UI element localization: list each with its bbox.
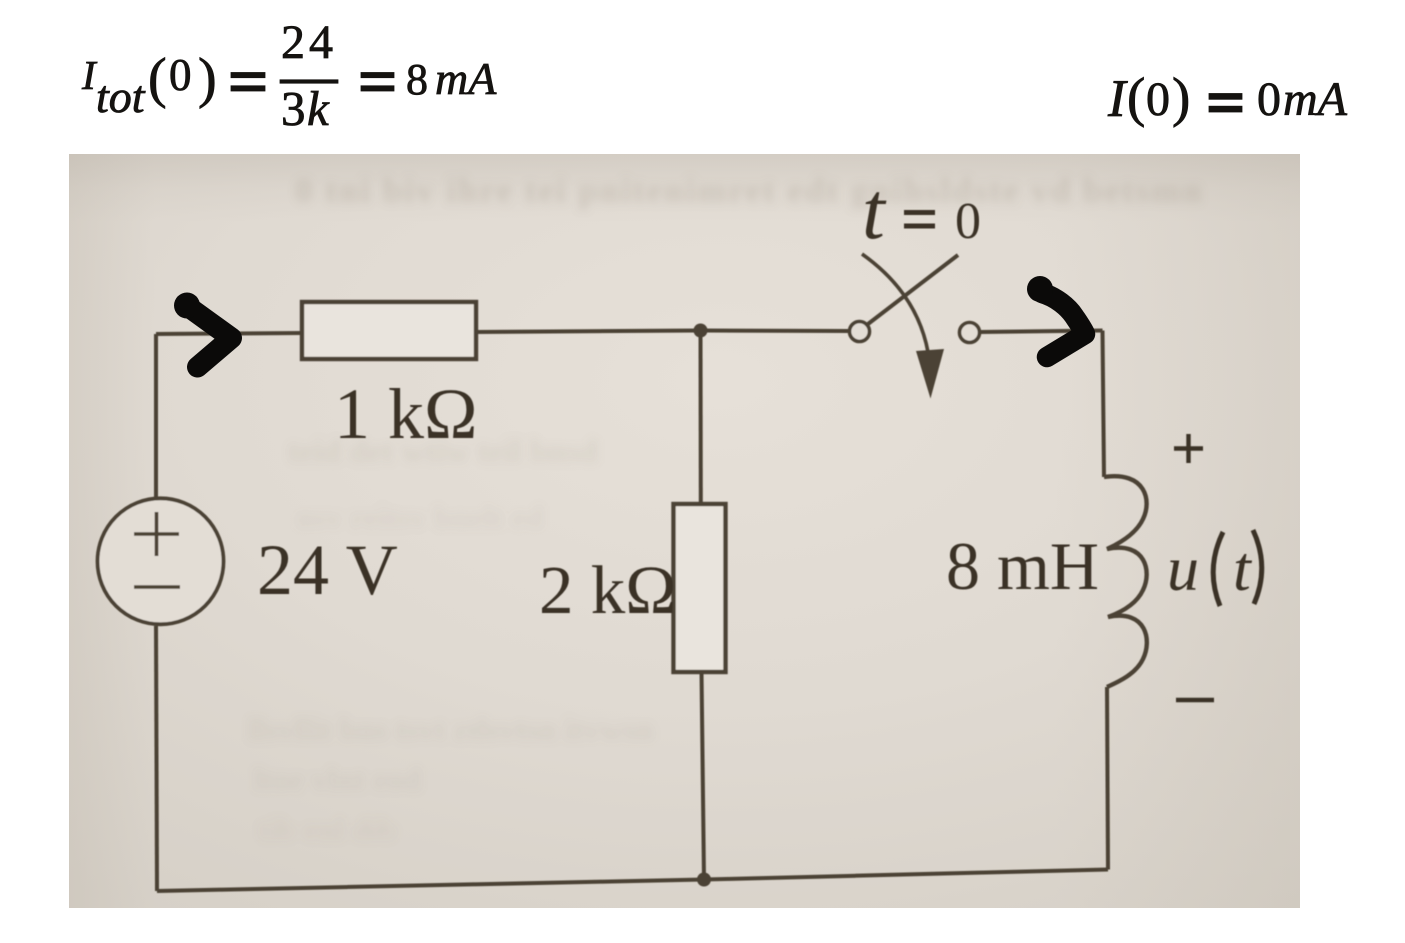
current arrow I (black marker, right of switch): [1042, 293, 1085, 357]
resistor R2 2kΩ (vertical): [674, 504, 726, 672]
voltage source + mark: [134, 512, 179, 556]
svg-text:ltoe vlnt eod: ltoe vlnt eod: [254, 761, 421, 797]
svg-text:0: 0: [1257, 73, 1281, 126]
label "t = 0": [862, 165, 981, 256]
formula Itot(0) = 24/3k = 8mA: [81, 16, 497, 136]
svg-text:u: u: [1167, 533, 1199, 604]
svg-text:3: 3: [281, 81, 306, 136]
inductor L1 8mH (three bumps): [1104, 476, 1147, 687]
svg-text:t: t: [1233, 533, 1253, 604]
svg-text:mA: mA: [435, 53, 497, 104]
switch S1 left terminal circle: [850, 322, 870, 342]
switch S1 closing motion arc: [862, 254, 928, 352]
switch S1 right terminal circle: [960, 323, 980, 343]
wire inductor to bottom-right corner: [1107, 687, 1108, 870]
svg-text:0: 0: [1146, 73, 1170, 126]
label "u(t)": [1167, 530, 1262, 606]
svg-text:mA: mA: [1283, 73, 1348, 126]
wire R2 down to node B: [702, 672, 705, 880]
current arrow Itot (black marker, left): [187, 306, 232, 368]
wire node A to switch left terminal: [701, 329, 849, 334]
voltage source − mark: [134, 585, 180, 589]
wire top-left horizontal (source to R1): [156, 333, 302, 334]
svg-text:tot: tot: [96, 71, 146, 122]
svg-text:(: (: [148, 48, 167, 110]
svg-text:0: 0: [955, 193, 981, 250]
svg-text:I: I: [1107, 70, 1128, 128]
svg-text:2 kΩ: 2 kΩ: [539, 552, 677, 628]
svg-text:0: 0: [169, 50, 192, 100]
wire R1 to node A: [476, 331, 700, 333]
svg-text:k: k: [307, 81, 330, 136]
wire bottom-left corner up to source: [156, 626, 157, 891]
svg-text:): ): [198, 48, 217, 110]
svg-text:24: 24: [281, 16, 337, 69]
voltage source V1 circle: [98, 498, 224, 624]
switch S1 motion arrowhead: [916, 349, 944, 399]
polarity − (bottom of inductor voltage): [1176, 698, 1214, 702]
polarity + (top of inductor voltage): [1174, 434, 1203, 463]
svg-text:8: 8: [406, 55, 428, 104]
switch S1 blade (open): [868, 255, 958, 324]
resistor R1 1kΩ (horizontal): [302, 302, 476, 359]
svg-text:24 V: 24 V: [257, 530, 398, 610]
node A junction dot (top of 2kΩ): [694, 324, 708, 338]
wire top-right corner down to inductor: [1103, 331, 1105, 478]
wire switch right terminal to top-right corner: [981, 331, 1103, 333]
node B junction dot (bottom of 2kΩ): [697, 873, 711, 887]
wire source top to top-left corner: [154, 334, 158, 499]
svg-text:tib enl dib: tib enl dib: [258, 811, 397, 847]
wire bottom (node B to bottom-left corner): [157, 880, 704, 892]
svg-text:1 kΩ: 1 kΩ: [334, 374, 478, 454]
photo of textbook page (background): [69, 154, 1300, 908]
svg-text:llsvllit bns tsvt ztlsvtsn itv: llsvllit bns tsvt ztlsvtsn itvwsn: [248, 711, 654, 747]
svg-text:t: t: [862, 165, 887, 256]
formula I(0) = 0mA: [1107, 67, 1348, 129]
svg-text:): ): [1172, 67, 1190, 128]
wire node A down to R2: [699, 331, 703, 505]
svg-text:0 tni biv ihre tei pnitenimret: 0 tni biv ihre tei pnitenimret edt gnihs…: [295, 171, 1204, 210]
svg-text:(: (: [1127, 67, 1145, 128]
wire bottom (right corner to node B): [704, 870, 1108, 880]
svg-text:8 mH: 8 mH: [946, 528, 1099, 604]
